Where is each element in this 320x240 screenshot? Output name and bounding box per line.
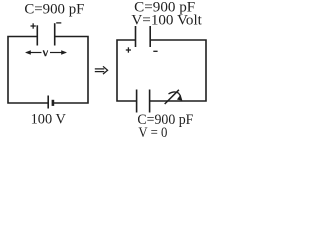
svg-text:C=900 pF: C=900 pF — [24, 2, 84, 18]
svg-text:V = 0: V = 0 — [138, 125, 167, 141]
svg-text:100 V: 100 V — [31, 111, 67, 127]
svg-text:V=100 Volt: V=100 Volt — [131, 12, 202, 28]
